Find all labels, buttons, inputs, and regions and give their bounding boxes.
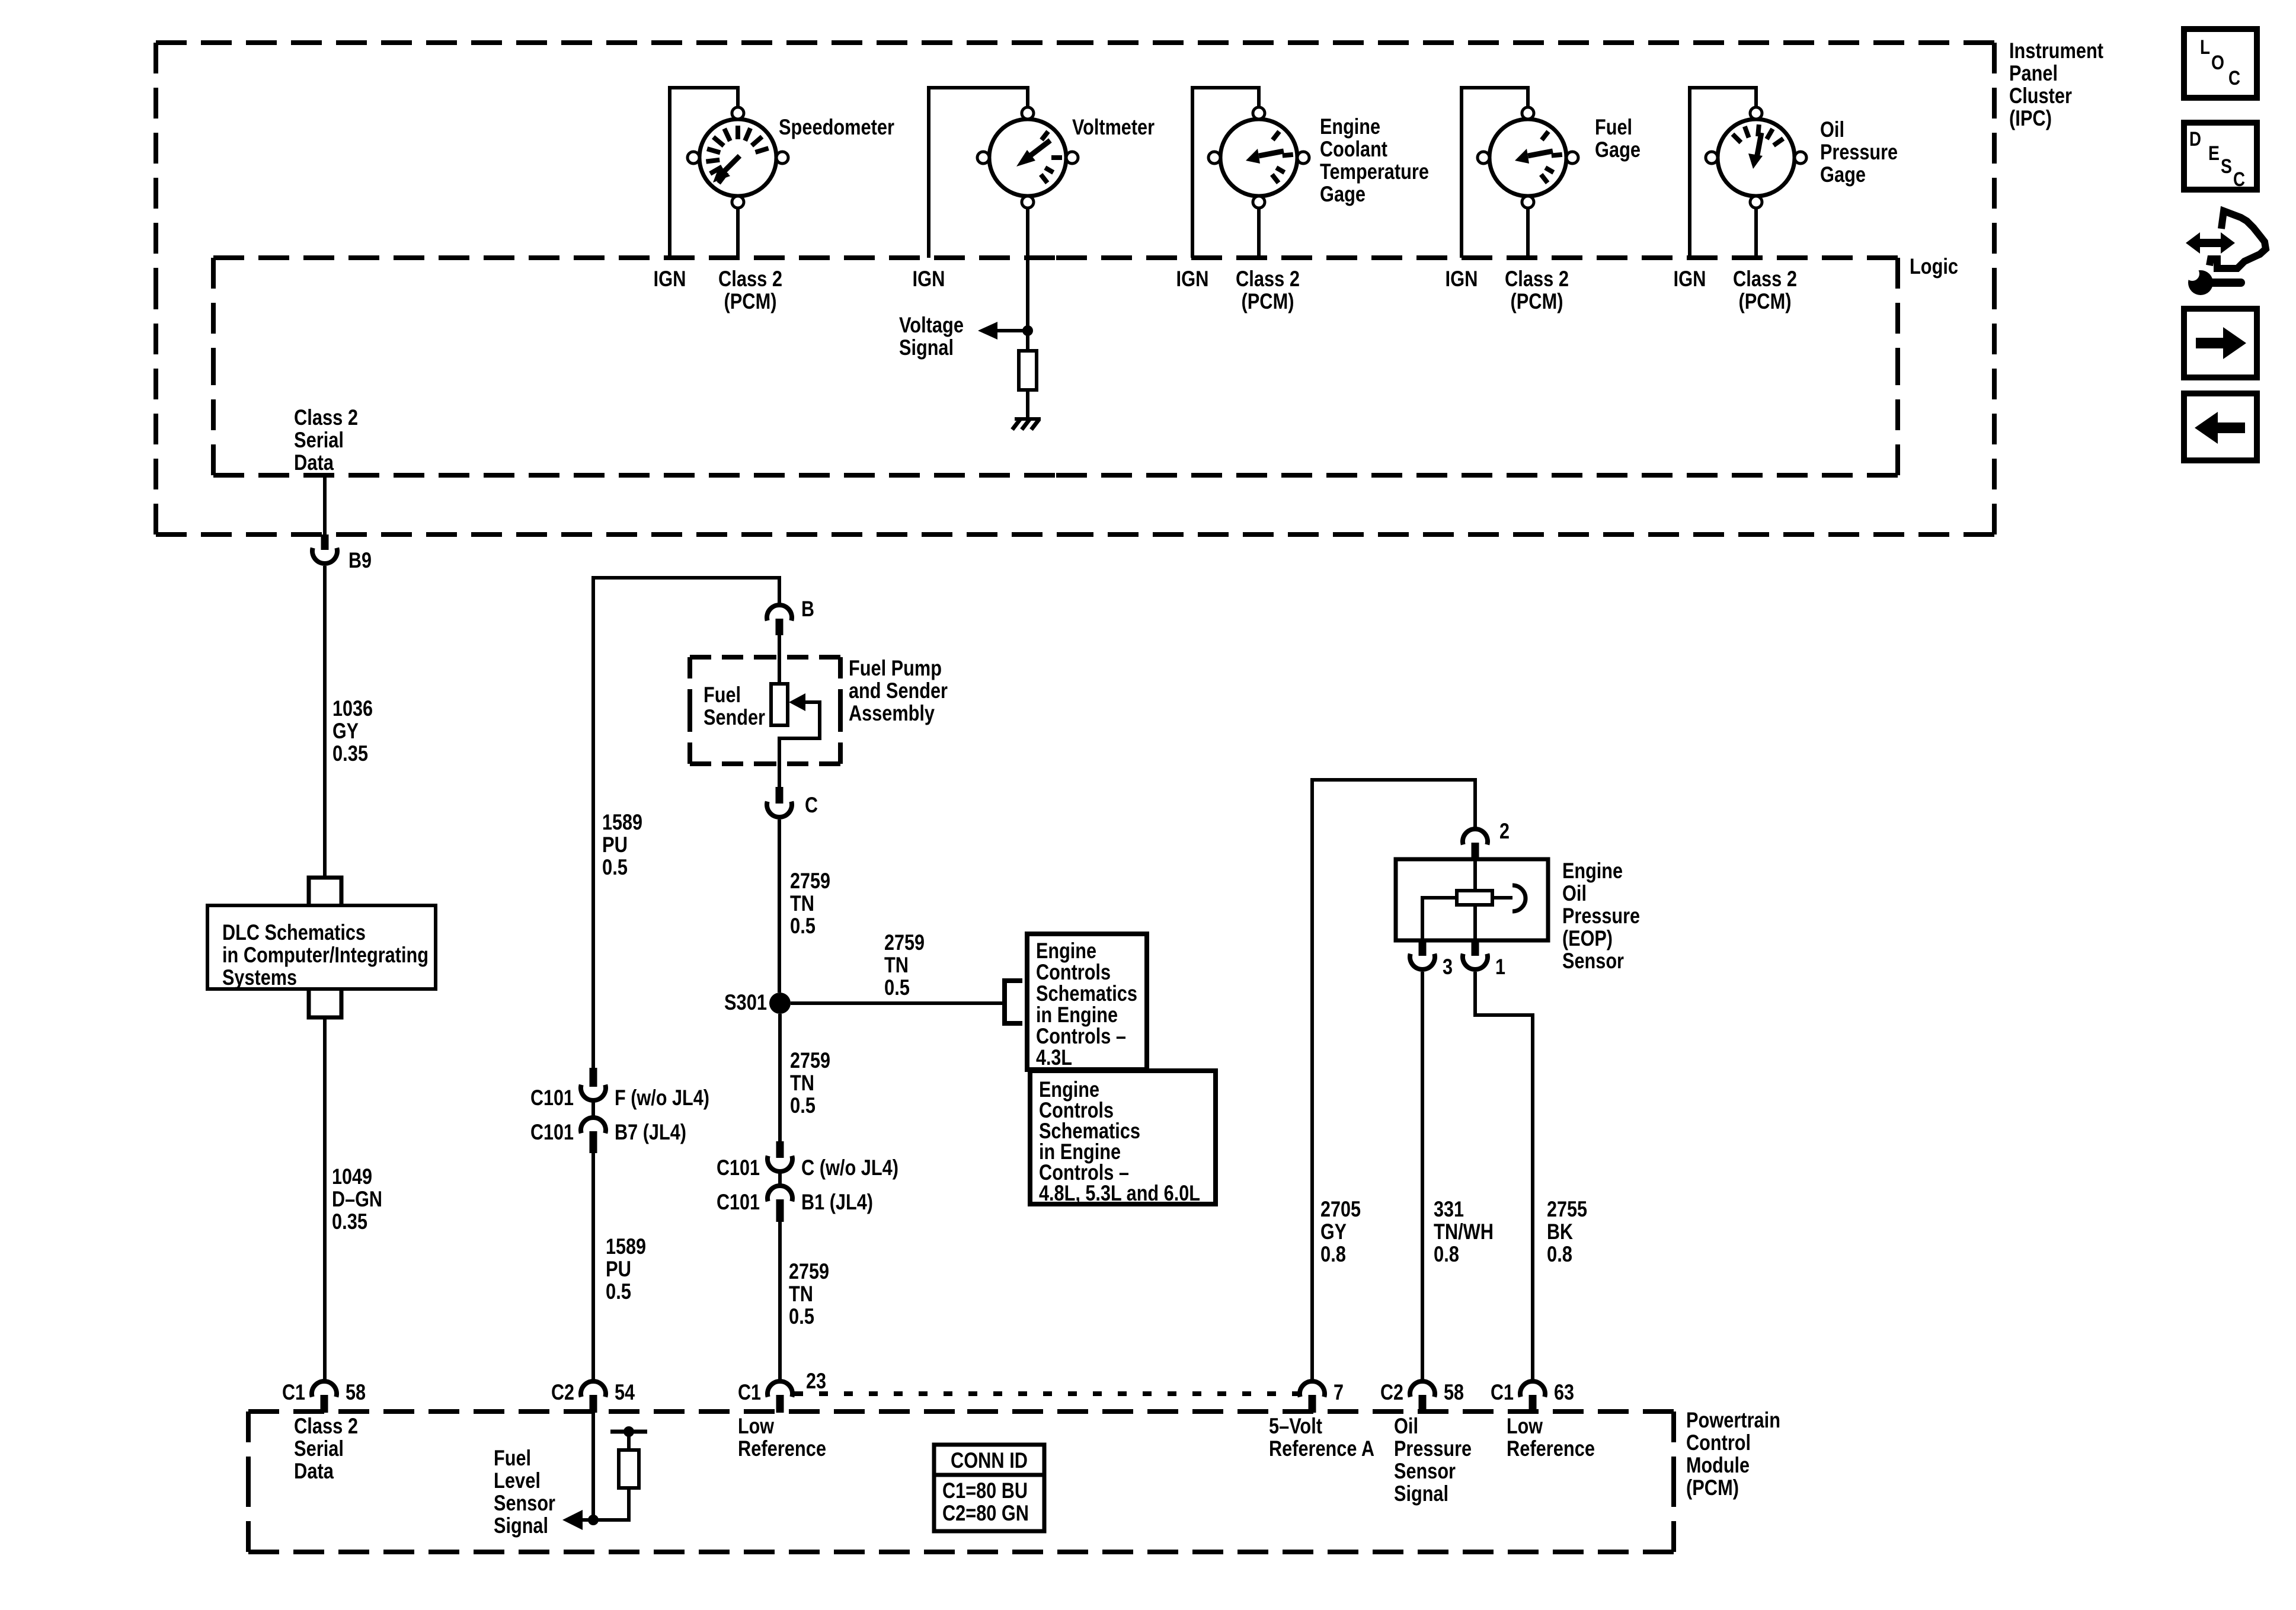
svg-text:(PCM): (PCM)	[1511, 289, 1563, 313]
svg-text:Pressure: Pressure	[1394, 1436, 1472, 1461]
svg-text:4.8L, 5.3L and 6.0L: 4.8L, 5.3L and 6.0L	[1039, 1181, 1200, 1205]
svg-text:D–GN: D–GN	[332, 1187, 382, 1211]
label Powertrain Control Module (PCM)	[1686, 1408, 1780, 1500]
label pin 54 (C2-54)	[615, 1380, 635, 1404]
svg-text:B: B	[801, 597, 814, 621]
Powertrain Control Module (PCM) dashed box	[248, 1411, 1674, 1552]
svg-text:(PCM): (PCM)	[1242, 289, 1294, 313]
wire Class 2 speedometer	[736, 208, 740, 258]
svg-text:S: S	[2221, 155, 2232, 178]
label C101 (B7)	[530, 1120, 574, 1144]
label C1 (C1-63)	[1491, 1380, 1514, 1404]
svg-text:C: C	[805, 793, 818, 817]
label 2 (EOP pin)	[1499, 819, 1510, 843]
connector C1-63 arc	[1520, 1381, 1545, 1397]
label Class 2 (PCM) (speedometer)	[718, 267, 782, 313]
CONN ID divider	[934, 1473, 1044, 1477]
svg-text:(EOP): (EOP)	[1562, 926, 1613, 950]
svg-text:BK: BK	[1547, 1219, 1573, 1244]
svg-text:Fuel Pump: Fuel Pump	[849, 656, 942, 680]
svg-text:0.8: 0.8	[1320, 1242, 1346, 1266]
svg-text:2755: 2755	[1547, 1197, 1587, 1221]
svg-text:0.5: 0.5	[606, 1279, 631, 1304]
svg-text:Pressure: Pressure	[1562, 904, 1640, 928]
svg-text:Voltmeter: Voltmeter	[1072, 115, 1155, 139]
label Class 2 (PCM) (fuel gage)	[1505, 267, 1569, 313]
Fuel Pump and Sender Assembly dashed box	[690, 657, 840, 764]
label C1=80 BU / C2=80 GN	[942, 1478, 1029, 1525]
svg-text:PU: PU	[602, 833, 628, 857]
wire 5-volt reference run	[1312, 780, 1475, 1380]
label Voltmeter	[1072, 115, 1155, 139]
svg-text:DLC Schematics: DLC Schematics	[222, 920, 366, 945]
svg-text:Cluster: Cluster	[2009, 84, 2072, 108]
svg-text:Sensor: Sensor	[1394, 1459, 1456, 1483]
svg-text:C: C	[2233, 168, 2245, 191]
icon prev-page arrow	[2195, 412, 2245, 444]
svg-text:TN: TN	[884, 953, 909, 977]
svg-text:PU: PU	[606, 1257, 631, 1281]
svg-text:C1: C1	[1491, 1380, 1514, 1404]
svg-text:C (w/o JL4): C (w/o JL4)	[801, 1156, 898, 1180]
svg-text:in Computer/Integrating: in Computer/Integrating	[222, 943, 428, 967]
label IGN (voltmeter)	[913, 267, 945, 291]
svg-text:Signal: Signal	[494, 1513, 548, 1538]
svg-text:Signal: Signal	[1394, 1481, 1448, 1506]
svg-text:IGN: IGN	[1446, 267, 1478, 291]
wire Class 2 coolant gage	[1257, 208, 1261, 258]
connector C1-58 stub	[321, 1395, 328, 1413]
wire IGN fuel gage	[1462, 88, 1528, 258]
svg-text:1049: 1049	[332, 1164, 372, 1189]
svg-text:Controls: Controls	[1036, 960, 1111, 984]
svg-text:D: D	[2189, 128, 2201, 151]
label 1589 PU 0.5 (upper)	[602, 810, 642, 879]
label Engine Coolant Temperature Gage	[1320, 114, 1429, 206]
label 2705 GY 0.8	[1320, 1197, 1361, 1266]
label pin 58 (C2-58)	[1444, 1380, 1464, 1404]
svg-text:C: C	[2228, 67, 2240, 89]
junction dot fuel level signal	[588, 1515, 599, 1525]
svg-text:Logic: Logic	[1910, 254, 1958, 279]
label 331 TN/WH 0.8	[1434, 1197, 1494, 1266]
svg-text:Signal: Signal	[899, 335, 954, 360]
svg-text:2759: 2759	[790, 1048, 830, 1073]
label Oil Pressure Gage	[1820, 117, 1898, 187]
svg-text:Speedometer: Speedometer	[779, 115, 894, 139]
svg-text:(PCM): (PCM)	[1739, 289, 1792, 313]
svg-text:Fuel: Fuel	[494, 1446, 531, 1470]
wire 331 TN/WH	[1421, 972, 1424, 1380]
svg-text:Reference A: Reference A	[1269, 1436, 1374, 1461]
connector C101 C arc	[768, 1156, 792, 1172]
label C (w/o JL4)	[801, 1156, 898, 1180]
svg-text:1589: 1589	[606, 1234, 646, 1259]
wire fuel level sensor signal	[591, 1413, 595, 1520]
wire 1589 PU top run	[593, 578, 779, 1068]
icon LOC letters	[2200, 36, 2240, 89]
svg-text:Engine: Engine	[1562, 859, 1623, 883]
label B9	[348, 548, 372, 572]
svg-text:1: 1	[1495, 955, 1505, 979]
connector B9 stub	[321, 534, 329, 550]
gauge Speedometer	[687, 107, 788, 208]
svg-text:Data: Data	[294, 450, 334, 475]
label B7 (JL4)	[615, 1120, 686, 1144]
svg-text:Gage: Gage	[1595, 137, 1641, 162]
label 2759 TN 0.5 (branch)	[884, 930, 925, 1000]
icon prev-page box	[2184, 393, 2257, 460]
label 2759 TN 0.5 (above S301)	[790, 869, 830, 938]
svg-text:C1: C1	[282, 1380, 305, 1404]
svg-text:C101: C101	[530, 1086, 574, 1110]
svg-text:Coolant: Coolant	[1320, 137, 1387, 161]
svg-text:Schematics: Schematics	[1036, 981, 1137, 1006]
svg-text:0.35: 0.35	[332, 741, 368, 766]
connector C2-54 stub	[590, 1395, 597, 1413]
svg-text:0.5: 0.5	[602, 855, 628, 879]
label Instrument Panel Cluster (IPC)	[2009, 39, 2103, 130]
svg-text:IGN: IGN	[1176, 267, 1209, 291]
wire C101 link (left)	[591, 1102, 595, 1118]
splice S301	[769, 993, 791, 1014]
connector 7 stub	[1309, 1395, 1316, 1413]
wire EOP internal left	[1422, 898, 1459, 940]
svg-text:L: L	[2200, 36, 2210, 59]
svg-text:TN: TN	[790, 1071, 814, 1095]
svg-text:(PCM): (PCM)	[724, 289, 777, 313]
arrow fuel level sensor signal	[562, 1510, 583, 1530]
svg-text:Instrument: Instrument	[2009, 39, 2103, 63]
icon DESC box	[2184, 123, 2257, 190]
svg-text:GY: GY	[1320, 1219, 1347, 1244]
label 1589 PU 0.5 (lower)	[606, 1234, 646, 1304]
svg-text:Class 2: Class 2	[1236, 267, 1300, 291]
wire voltmeter signal	[1026, 208, 1029, 354]
label IGN (coolant gage)	[1176, 267, 1209, 291]
svg-text:S301: S301	[724, 990, 767, 1014]
label pin 63 (C1-63)	[1554, 1380, 1574, 1404]
label Low Reference (C1-63)	[1507, 1414, 1595, 1461]
wire EOP internal bottom	[1473, 905, 1477, 940]
label 3 (EOP pin)	[1443, 955, 1453, 979]
svg-text:C2: C2	[1380, 1380, 1403, 1404]
label pin 58 (C1-58)	[346, 1380, 366, 1404]
label 1036 GY 0.35	[332, 696, 373, 766]
label B	[801, 597, 814, 621]
wire 1589 PU to PCM	[591, 1153, 595, 1380]
svg-text:Low: Low	[738, 1414, 774, 1438]
wire fuel sender wiper	[779, 702, 820, 787]
icon double arrow	[2186, 232, 2235, 254]
wire Class 2 fuel gage	[1526, 208, 1530, 258]
svg-text:Voltage: Voltage	[899, 313, 964, 337]
label Fuel Level Sensor Signal	[494, 1446, 555, 1538]
svg-text:in Engine: in Engine	[1036, 1003, 1118, 1027]
label C101 (C)	[717, 1156, 760, 1180]
wire junction to pull-up resistor	[593, 1488, 629, 1520]
svg-text:0.5: 0.5	[789, 1304, 814, 1329]
svg-text:2: 2	[1499, 819, 1510, 843]
label Fuel Gage	[1595, 115, 1641, 162]
svg-text:Oil: Oil	[1820, 117, 1844, 142]
svg-text:Reference: Reference	[1507, 1436, 1595, 1461]
arrow voltage signal	[978, 322, 997, 340]
svg-text:Serial: Serial	[294, 428, 344, 452]
wire EOP internal top	[1473, 859, 1477, 891]
svg-text:Engine: Engine	[1036, 939, 1096, 963]
connector C1-23 arc	[768, 1381, 792, 1397]
svg-text:58: 58	[1444, 1380, 1464, 1404]
svg-text:2759: 2759	[884, 930, 925, 955]
icon vehicle outline	[2209, 211, 2266, 268]
connector C1-58 arc	[312, 1381, 337, 1397]
label Fuel Sender	[703, 683, 765, 729]
pull-up supply dot	[623, 1426, 634, 1437]
wire 2755 BK	[1475, 972, 1533, 1380]
connector C1-23 stub	[776, 1395, 784, 1413]
label 5-Volt Reference A	[1269, 1414, 1374, 1461]
gauge Fuel Gage	[1478, 107, 1578, 208]
gauge Engine Coolant Temperature Gage	[1208, 107, 1309, 208]
wire IGN oil gage	[1690, 88, 1756, 258]
connector C101 B7 stub	[590, 1131, 597, 1153]
svg-text:Fuel: Fuel	[1595, 115, 1632, 139]
svg-text:C2: C2	[551, 1380, 574, 1404]
wire C101 link (right)	[778, 1173, 782, 1186]
label Fuel Pump and Sender Assembly	[849, 656, 948, 725]
svg-text:Low: Low	[1507, 1414, 1543, 1438]
pull-up supply bar	[610, 1430, 647, 1434]
svg-text:0.8: 0.8	[1434, 1242, 1459, 1266]
svg-text:Class 2: Class 2	[294, 1414, 358, 1438]
DLC Schematics box	[207, 905, 436, 989]
label C101 (F)	[530, 1086, 574, 1110]
svg-text:TN: TN	[790, 891, 814, 916]
Engine Controls Schematics 4.8/5.3/6.0L box	[1030, 1071, 1216, 1204]
svg-text:(IPC): (IPC)	[2009, 106, 2052, 130]
label Engine Controls Schematics in Engine Controls - 4.8L 5.3L and 6.0L	[1039, 1077, 1200, 1205]
svg-text:Temperature: Temperature	[1320, 159, 1429, 184]
connector C2-54 arc	[581, 1381, 606, 1397]
connector B9 arc	[312, 548, 337, 564]
svg-text:Class 2: Class 2	[718, 267, 782, 291]
svg-text:54: 54	[615, 1380, 635, 1404]
junction dot voltage signal	[1022, 325, 1033, 336]
label 2755 BK 0.8	[1547, 1197, 1587, 1266]
resistor fuel sender	[771, 684, 788, 725]
ground symbol	[1012, 419, 1041, 430]
label IGN (fuel gage)	[1446, 267, 1478, 291]
label Logic	[1910, 254, 1958, 279]
icon DESC letters	[2189, 128, 2245, 191]
connector C101 C stub	[776, 1141, 784, 1158]
svg-text:IGN: IGN	[654, 267, 686, 291]
svg-text:331: 331	[1434, 1197, 1464, 1221]
bus bar below DLC box	[309, 989, 341, 1017]
svg-text:0.8: 0.8	[1547, 1242, 1572, 1266]
connector 3 stub	[1419, 940, 1427, 956]
wire 1049 D-GN	[323, 1017, 327, 1380]
wire IGN voltmeter	[929, 88, 1028, 258]
wire 1036 GY	[323, 566, 327, 878]
icon next-page arrow	[2196, 327, 2246, 359]
connector C stub	[776, 787, 784, 804]
connector C2-58 stub	[1419, 1395, 1427, 1413]
wire resistor to ground	[1026, 390, 1029, 420]
svg-text:C2=80 GN: C2=80 GN	[942, 1501, 1029, 1525]
svg-text:Gage: Gage	[1820, 162, 1866, 187]
svg-text:B9: B9	[348, 548, 372, 572]
wire 2759 TN to S301	[778, 820, 781, 993]
connector 1 arc	[1463, 954, 1488, 969]
label Low Reference (C1-23)	[738, 1414, 826, 1461]
label C2 (C2-54)	[551, 1380, 574, 1404]
label IGN (oil gage)	[1674, 267, 1706, 291]
connector C101 B7 arc	[581, 1118, 606, 1133]
label Speedometer	[779, 115, 894, 139]
connector 7 arc	[1300, 1381, 1325, 1397]
svg-text:Gage: Gage	[1320, 182, 1366, 206]
svg-text:C101: C101	[717, 1156, 760, 1180]
label C101 (B1)	[717, 1190, 760, 1214]
wire fuel level arrow link	[583, 1518, 593, 1522]
label C	[805, 793, 818, 817]
svg-text:1589: 1589	[602, 810, 642, 834]
svg-text:Sender: Sender	[703, 705, 765, 729]
gauge Oil Pressure Gage	[1706, 107, 1806, 208]
label CONN ID	[951, 1448, 1028, 1473]
Engine Oil Pressure (EOP) Sensor box	[1396, 859, 1548, 940]
connector C2-58 arc	[1410, 1381, 1435, 1397]
resistor voltmeter pull-down	[1019, 351, 1037, 390]
EOP transducer arc	[1512, 885, 1526, 911]
svg-text:0.5: 0.5	[790, 914, 816, 938]
svg-text:Class 2: Class 2	[1733, 267, 1797, 291]
svg-text:(PCM): (PCM)	[1686, 1475, 1739, 1500]
svg-text:TN/WH: TN/WH	[1434, 1219, 1494, 1244]
wire B to fuel sender	[778, 635, 781, 684]
connector 2 arc	[1463, 829, 1488, 844]
svg-text:3: 3	[1443, 955, 1453, 979]
wire 2759 TN to PCM	[778, 1222, 782, 1380]
svg-text:Controls –: Controls –	[1036, 1024, 1126, 1048]
svg-text:Sensor: Sensor	[1562, 949, 1624, 973]
svg-text:GY: GY	[332, 719, 359, 743]
off-page bracket to engine controls	[1005, 981, 1022, 1023]
svg-text:2759: 2759	[789, 1259, 829, 1283]
label 2759 TN 0.5 (below S301)	[790, 1048, 830, 1118]
label DLC Schematics in Computer/Integrating Systems	[222, 920, 428, 990]
svg-text:Pressure: Pressure	[1820, 140, 1898, 164]
label S301	[724, 990, 767, 1014]
wire IGN coolant gage	[1192, 88, 1259, 258]
svg-text:1036: 1036	[332, 696, 373, 721]
svg-text:B1 (JL4): B1 (JL4)	[801, 1190, 873, 1214]
label Oil Pressure Sensor Signal	[1394, 1414, 1472, 1506]
svg-text:Reference: Reference	[738, 1436, 826, 1461]
svg-text:Sensor: Sensor	[494, 1491, 555, 1515]
label Class 2 (PCM) (oil gage)	[1733, 267, 1797, 313]
svg-text:Class 2: Class 2	[1505, 267, 1569, 291]
connector C101 F stub	[590, 1068, 597, 1087]
label C2 (C2-58)	[1380, 1380, 1403, 1404]
svg-text:2705: 2705	[1320, 1197, 1361, 1221]
label pin 23 (C1-23)	[806, 1369, 826, 1393]
icon wrench	[2185, 267, 2245, 295]
svg-text:TN: TN	[789, 1282, 813, 1306]
Engine Controls Schematics 4.3L box	[1027, 934, 1147, 1070]
icon LOC box	[2184, 29, 2257, 98]
wire pull-up resistor top	[627, 1433, 631, 1450]
connector C101 F arc	[581, 1085, 606, 1100]
connector B stub	[776, 619, 784, 635]
svg-text:IGN: IGN	[1674, 267, 1706, 291]
svg-text:58: 58	[346, 1380, 366, 1404]
label IGN (speedometer)	[654, 267, 686, 291]
svg-text:Fuel: Fuel	[703, 683, 741, 707]
dotted link C1-23 to 7	[794, 1391, 1298, 1396]
svg-text:5–Volt: 5–Volt	[1269, 1414, 1322, 1438]
svg-text:7: 7	[1334, 1380, 1344, 1404]
svg-text:Class 2: Class 2	[294, 405, 358, 430]
bus bar above DLC box	[309, 878, 341, 905]
svg-text:Level: Level	[494, 1468, 541, 1493]
svg-text:Control: Control	[1686, 1430, 1751, 1455]
connector C arc	[767, 802, 792, 817]
svg-text:Engine: Engine	[1320, 114, 1380, 139]
svg-text:E: E	[2208, 142, 2220, 165]
svg-text:Powertrain: Powertrain	[1686, 1408, 1780, 1432]
wire voltage signal branch	[997, 329, 1028, 332]
svg-text:and Sender: and Sender	[849, 678, 948, 703]
svg-text:23: 23	[806, 1369, 826, 1393]
resistor EOP sense element	[1457, 891, 1492, 905]
svg-text:0.35: 0.35	[332, 1209, 367, 1234]
wire S301 branch to engine controls	[791, 1001, 1005, 1005]
label Class 2 Serial Data (PCM)	[294, 1414, 358, 1483]
wire EOP internal right	[1492, 896, 1512, 900]
label F (w/o JL4)	[615, 1086, 709, 1110]
label 2759 TN 0.5 (lower)	[789, 1259, 829, 1329]
wire class 2 serial data to IPC edge	[323, 475, 327, 534]
svg-text:C1=80 BU: C1=80 BU	[942, 1478, 1028, 1503]
wire Class 2 oil gage	[1754, 208, 1758, 258]
label 1 (EOP pin)	[1495, 955, 1505, 979]
svg-text:Data: Data	[294, 1459, 334, 1483]
icon next-page box	[2184, 309, 2257, 377]
connector B arc	[767, 605, 792, 620]
Instrument Panel Cluster (IPC) dashed box	[156, 43, 1994, 534]
svg-text:O: O	[2211, 52, 2224, 74]
Logic dashed box (inside IPC)	[213, 258, 1898, 475]
svg-text:0.5: 0.5	[790, 1093, 816, 1118]
label B1 (JL4)	[801, 1190, 873, 1214]
label Engine Controls Schematics in Engine Controls - 4.3L	[1036, 939, 1137, 1070]
label 1049 D-GN 0.35	[332, 1164, 382, 1234]
svg-text:Panel: Panel	[2009, 61, 2058, 85]
connector 1 stub	[1472, 940, 1479, 956]
svg-text:Oil: Oil	[1562, 881, 1587, 905]
svg-text:4.3L: 4.3L	[1036, 1045, 1072, 1070]
label Class 2 (PCM) (coolant gage)	[1236, 267, 1300, 313]
connector C101 B1 stub	[776, 1199, 784, 1222]
fuel sender wiper arrow	[789, 693, 805, 711]
connector C1-63 stub	[1529, 1395, 1537, 1413]
svg-text:C1: C1	[738, 1380, 761, 1404]
label C1 (C1-23)	[738, 1380, 761, 1404]
svg-text:F (w/o JL4): F (w/o JL4)	[615, 1086, 709, 1110]
